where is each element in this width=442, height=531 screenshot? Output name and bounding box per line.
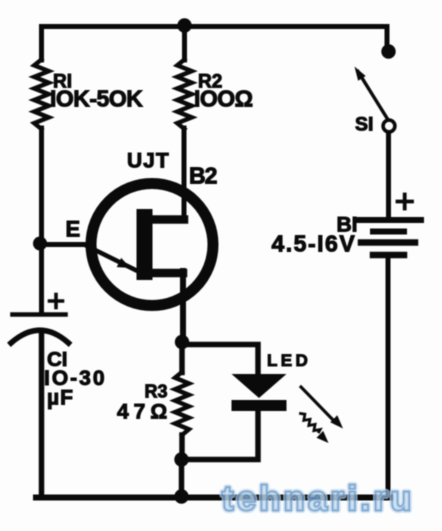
UJT base bar xyxy=(137,209,153,280)
resistor R3 xyxy=(175,372,189,435)
wire LED branch bottom xyxy=(186,411,258,460)
wire bottom rail xyxy=(36,495,391,501)
svg-text:E: E xyxy=(66,217,81,242)
capacitor C1 top plate xyxy=(13,312,66,317)
svg-text:SI: SI xyxy=(355,114,373,136)
node bottom rail junction xyxy=(174,489,188,503)
switch S1 arrowhead xyxy=(355,67,366,81)
LED D1 cathode bar xyxy=(232,400,287,411)
battery B1 plate 1 (long +) xyxy=(359,217,421,223)
wire B1 lead down to node xyxy=(180,271,186,342)
svg-text:LED: LED xyxy=(267,351,311,370)
battery B1 plate 2 (short) xyxy=(373,229,404,235)
svg-text:4.5-I6V: 4.5-I6V xyxy=(272,231,357,257)
wire middle column upper xyxy=(182,27,187,61)
wire switch to battery xyxy=(386,134,391,217)
wire left rail lower xyxy=(39,333,45,497)
svg-text:tehnari.ru: tehnari.ru xyxy=(222,480,415,518)
UJT emitter arrowhead xyxy=(117,258,131,268)
node R3 top / LED branch xyxy=(175,335,189,349)
battery B1 plate 3 (long) xyxy=(361,239,415,246)
wire emitter horizontal xyxy=(40,242,90,247)
UJT B2 lead xyxy=(150,215,184,224)
node R3 bottom / LED branch xyxy=(174,452,188,466)
transistor Q1 UJT body circle xyxy=(91,184,213,306)
capacitor C1 plus sign xyxy=(50,295,63,308)
svg-text:R3: R3 xyxy=(145,382,168,402)
UJT emitter line xyxy=(86,246,138,272)
wire left rail middle xyxy=(39,128,44,313)
wire top rail xyxy=(42,27,388,49)
wire left rail upper xyxy=(39,27,44,61)
LED light arrow 2 wavy shaft xyxy=(301,414,321,432)
LED D1 anode triangle xyxy=(232,374,287,398)
UJT B1 lead xyxy=(150,269,183,278)
node switch top terminal xyxy=(381,44,395,58)
node top rail / R2 junction xyxy=(177,18,191,32)
svg-text:UJT: UJT xyxy=(127,150,170,173)
svg-text:IOK-5OK: IOK-5OK xyxy=(50,86,143,112)
LED light arrow 1 head xyxy=(330,415,343,428)
wire LED branch top xyxy=(186,345,258,375)
resistor R1 xyxy=(34,60,49,130)
svg-text:IOOΩ: IOOΩ xyxy=(194,86,253,112)
node E junction xyxy=(33,237,47,251)
svg-text:47Ω: 47Ω xyxy=(117,401,172,424)
svg-text:µF: µF xyxy=(47,387,74,410)
wire battery to bottom rail xyxy=(386,258,391,496)
battery plus sign xyxy=(398,195,413,209)
resistor R2 xyxy=(177,60,192,130)
switch S1 lever xyxy=(358,72,388,120)
LED light arrow 1 shaft xyxy=(301,387,336,423)
switch S1 contact circle xyxy=(383,120,395,132)
wire node down to bottom rail xyxy=(179,460,185,497)
LED light arrow 2 head xyxy=(317,431,329,443)
svg-text:B2: B2 xyxy=(189,163,217,189)
watermark tehnari.ru xyxy=(222,480,415,518)
wire node to R3 xyxy=(179,342,185,373)
wire middle column to B2 xyxy=(182,128,187,220)
wire R3 to node xyxy=(179,435,185,459)
capacitor C1 bottom plate (curved) xyxy=(11,330,69,343)
battery B1 plate 4 (short) xyxy=(373,252,404,259)
